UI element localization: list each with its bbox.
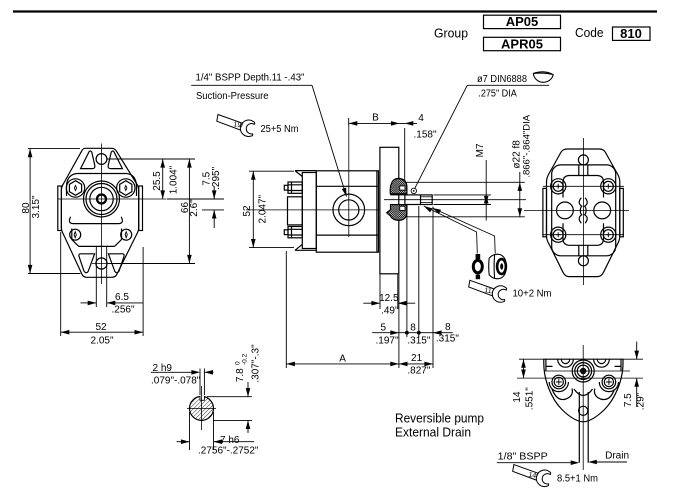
svg-text:B: B: [372, 113, 379, 124]
svg-text:Suction-Pressure: Suction-Pressure: [196, 91, 269, 102]
svg-text:.079"-.078": .079"-.078": [151, 376, 201, 387]
svg-text:8: 8: [445, 322, 451, 333]
svg-text:.256": .256": [111, 305, 134, 316]
svg-text:6.5: 6.5: [115, 292, 129, 303]
svg-text:3.15": 3.15": [31, 195, 42, 218]
svg-text:2.047": 2.047": [257, 194, 268, 223]
svg-text:Code: Code: [575, 25, 604, 40]
svg-text:.275" DIA: .275" DIA: [478, 88, 517, 99]
svg-text:Group: Group: [434, 26, 468, 41]
svg-text:2 h9: 2 h9: [153, 363, 173, 374]
svg-text:810: 810: [620, 26, 642, 41]
svg-text:A: A: [339, 354, 346, 365]
svg-text:ø7 DIN6888: ø7 DIN6888: [477, 74, 527, 85]
svg-text:.551": .551": [524, 387, 535, 410]
svg-text:.827": .827": [407, 366, 430, 377]
svg-text:12.5: 12.5: [379, 293, 399, 304]
svg-text:.158": .158": [413, 130, 436, 141]
svg-text:8.5+1 Nm: 8.5+1 Nm: [557, 474, 598, 485]
svg-text:.295": .295": [211, 166, 222, 189]
svg-text:10+2 Nm: 10+2 Nm: [513, 289, 552, 300]
svg-text:21: 21: [411, 353, 423, 364]
svg-text:.315": .315": [407, 336, 430, 347]
svg-text:4: 4: [418, 113, 424, 124]
svg-text:52: 52: [242, 205, 253, 217]
svg-text:5: 5: [381, 323, 387, 334]
svg-text:-0.2: -0.2: [242, 353, 249, 365]
svg-text:25.5: 25.5: [152, 171, 163, 191]
svg-text:.2756"-.2752": .2756"-.2752": [198, 446, 259, 457]
svg-text:M7: M7: [475, 143, 486, 157]
svg-text:7.8: 7.8: [235, 368, 246, 382]
svg-text:.197": .197": [375, 336, 398, 347]
svg-text:APR05: APR05: [501, 36, 543, 51]
svg-text:.29": .29": [636, 392, 647, 410]
svg-text:8: 8: [410, 323, 416, 334]
svg-text:1/8" BSPP: 1/8" BSPP: [498, 452, 548, 463]
svg-text:2.05": 2.05": [90, 336, 113, 347]
svg-text:1.004": 1.004": [168, 165, 179, 194]
svg-text:7 h6: 7 h6: [220, 435, 240, 446]
svg-text:1/4" BSPP Depth.11 -.43": 1/4" BSPP Depth.11 -.43": [196, 73, 305, 84]
svg-text:7.5: 7.5: [623, 393, 634, 407]
svg-text:.315": .315": [436, 334, 459, 345]
svg-text:2.6": 2.6": [189, 199, 200, 217]
svg-text:AP05: AP05: [506, 14, 539, 29]
svg-text:.49": .49": [381, 306, 399, 317]
svg-text:.307"-.3": .307"-.3": [251, 344, 262, 383]
svg-text:.866"-.864"DIA: .866"-.864"DIA: [521, 114, 532, 177]
svg-text:Reversible pump: Reversible pump: [395, 412, 484, 426]
svg-text:14: 14: [512, 391, 523, 403]
svg-text:25+5 Nm: 25+5 Nm: [261, 124, 299, 135]
svg-text:Drain: Drain: [605, 450, 629, 461]
svg-text:External Drain: External Drain: [395, 426, 471, 440]
svg-text:0: 0: [234, 361, 241, 365]
svg-text:52: 52: [95, 322, 107, 333]
